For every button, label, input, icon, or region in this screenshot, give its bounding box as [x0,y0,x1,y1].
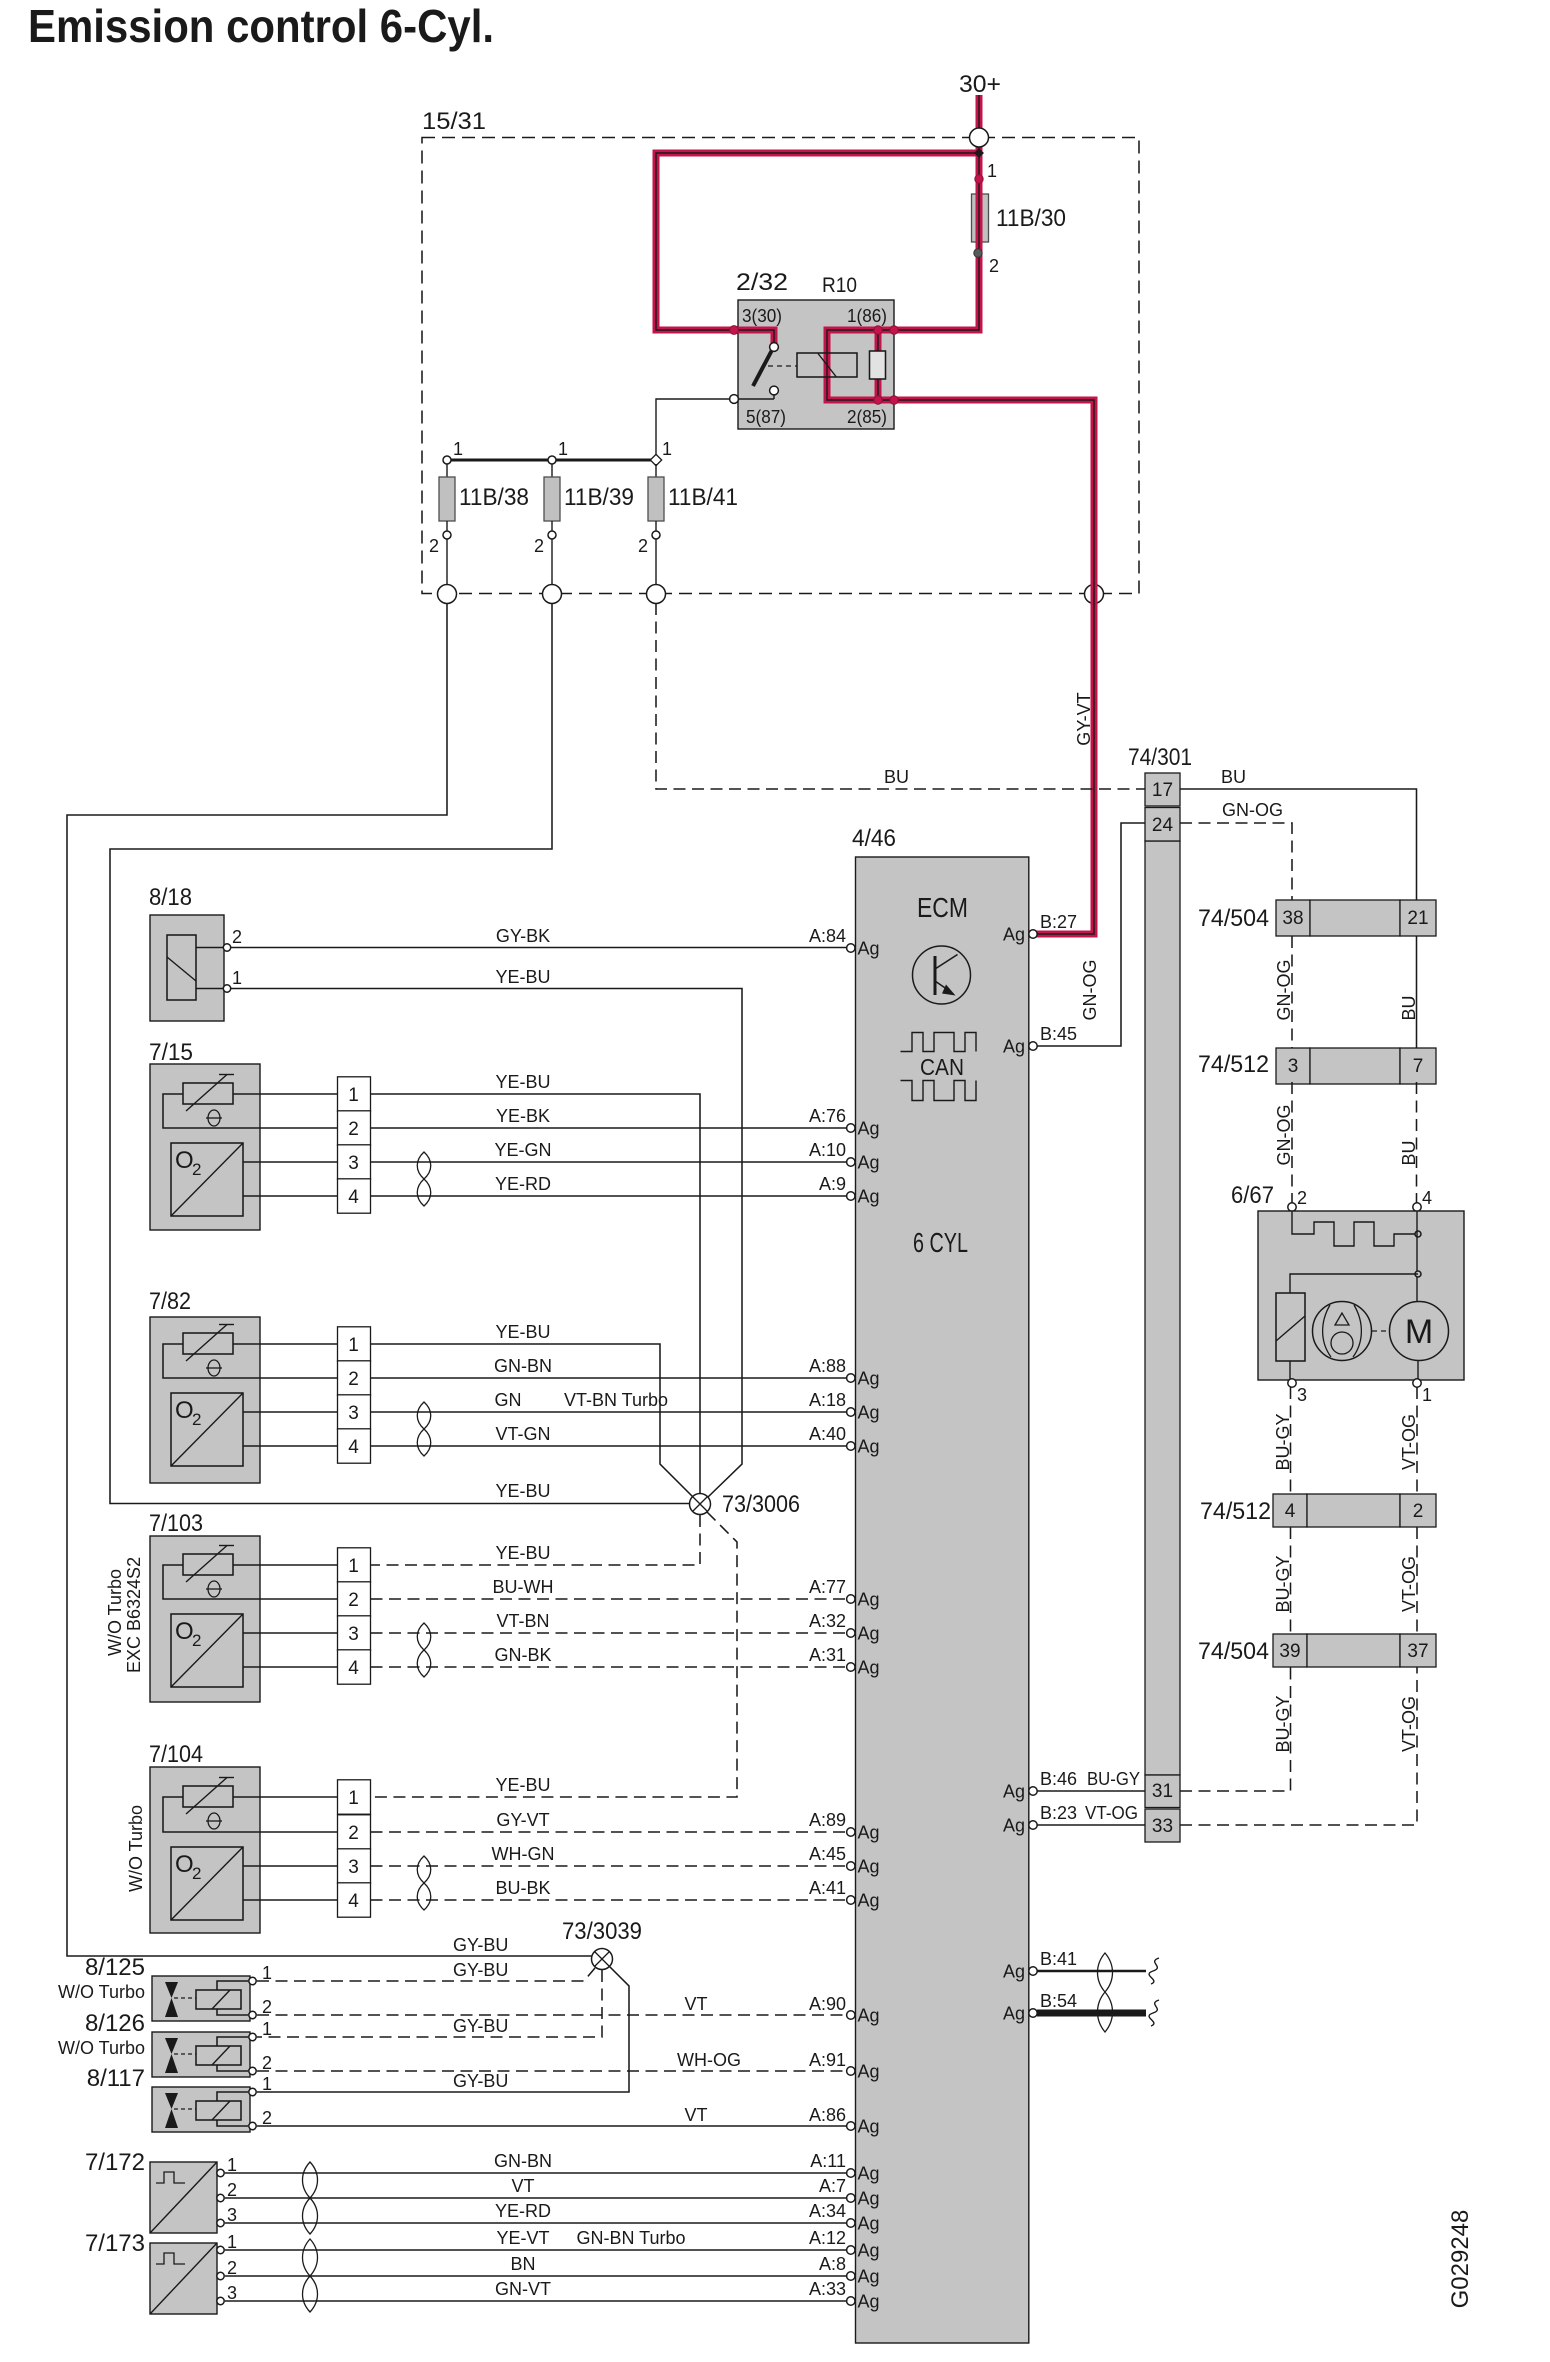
fuse 11B/38 pin 1 node [443,456,451,464]
7/15 connector cells 1-4 [338,1077,371,1111]
svg-text:74/504: 74/504 [1198,1638,1269,1665]
svg-text:Ag: Ag [1003,2004,1025,2024]
svg-text:GN-OG: GN-OG [1080,960,1100,1021]
svg-text:A:77: A:77 [809,1577,846,1597]
wire YE-VT / GN-BN Turbo 7/173 pin1 to A:12 [225,2249,851,2251]
svg-text:73/3039: 73/3039 [562,1918,642,1945]
svg-text:1: 1 [227,2232,237,2252]
wire YE-BU dashed from splice 73/3006 to 7/104 pin1 [371,1512,738,1797]
ECM pin A:32 with Ag [847,1629,855,1637]
wire VT 7/172 pin2 to A:7 [225,2197,851,2199]
wire VT-OG dashed 6/67 pin1 to 74/512 pin2 [1416,1387,1418,1494]
relay pin 5(87) open circle [730,395,739,404]
svg-text:3: 3 [227,2283,237,2303]
svg-text:YE-BU: YE-BU [495,1322,550,1342]
svg-text:GY-VT: GY-VT [496,1810,549,1830]
svg-text:VT-BN: VT-BN [496,1611,549,1631]
svg-text:GY-BU: GY-BU [453,2071,508,2091]
7/82 lead to cell 4 [260,1445,338,1447]
svg-text:YE-BU: YE-BU [495,1543,550,1563]
7/172 pulse symbol [156,2172,185,2183]
svg-text:A:84: A:84 [809,926,846,946]
wire GN-OG dashed 74/504 pin38 to 74/512 pin3 [1291,936,1293,1048]
svg-text:BU-BK: BU-BK [495,1878,550,1898]
svg-text:O: O [175,1618,194,1645]
wire YE-BU from 7/82 pin1 to splice 73/3006 [371,1344,694,1497]
svg-text:GN-BN: GN-BN [494,1356,552,1376]
wire BU-BK 7/104 pin4 to A:41 dashed [371,1899,852,1901]
svg-text:Ag: Ag [1003,1037,1025,1057]
svg-text:GN-OG: GN-OG [1222,800,1283,820]
svg-text:Ag: Ag [858,1369,880,1389]
7/104 lead to cell 3 [260,1865,338,1867]
twisted pair marker B:41/B:54 [1098,1953,1113,2032]
svg-text:1(86): 1(86) [847,306,887,326]
svg-text:1: 1 [987,161,997,181]
svg-text:Ag: Ag [858,1437,880,1457]
svg-text:74/512: 74/512 [1198,1051,1269,1078]
ECM pin A:40 with Ag [847,1442,855,1450]
wire GY-BU dashed from 8/125 pin1 to splice 73/3039 [257,1968,595,1981]
connector 74/301 cell 33 [1145,1809,1180,1842]
svg-text:3: 3 [1297,1385,1307,1405]
svg-text:1: 1 [558,439,568,459]
svg-text:3: 3 [1288,1056,1299,1077]
svg-text:7/82: 7/82 [149,1288,191,1315]
svg-text:4: 4 [348,1187,359,1208]
7/104 twisted pair marker [417,1856,431,1910]
svg-text:7/104: 7/104 [149,1741,203,1768]
wire GN-OG from ECM B:45 up to 74/301 pin 24 [1037,823,1145,1046]
svg-text:2: 2 [429,536,439,556]
svg-text:3: 3 [348,1624,359,1645]
component 8/18 body [150,915,224,1021]
svg-text:7: 7 [1413,1056,1424,1077]
connector 74/301 main bar [1145,841,1180,1775]
7/103 twisted pair marker [417,1623,431,1677]
component 8/125 body [152,1976,250,2021]
svg-text:3: 3 [348,1153,359,1174]
connector circle 30+ on box border [970,128,989,147]
component 7/103 body [150,1536,260,1702]
6/67 branch to solenoid [1290,1274,1418,1293]
svg-text:A:90: A:90 [809,1994,846,2014]
7/82 twisted pair marker [417,1402,431,1456]
ECM pin A:90 with Ag [847,2011,855,2019]
svg-text:YE-BU: YE-BU [495,1072,550,1092]
svg-text:Ag: Ag [858,1119,880,1139]
svg-text:8/117: 8/117 [87,2065,145,2092]
svg-text:A:10: A:10 [809,1140,846,1160]
svg-text:8/126: 8/126 [85,2010,145,2037]
svg-text:Ag: Ag [858,1658,880,1678]
svg-text:24: 24 [1152,815,1174,836]
wire GY-VT 7/104 pin2 to A:89 dashed [371,1831,852,1833]
svg-text:2: 2 [348,1590,359,1611]
svg-text:2: 2 [192,1631,201,1650]
svg-text:7/172: 7/172 [85,2149,145,2176]
8/18 pin 1 [223,985,230,992]
6/67 pin 3 [1288,1379,1296,1387]
7/15 lead to cell 3 [260,1161,338,1163]
svg-text:B:27: B:27 [1040,912,1077,932]
component 7/15 body [150,1064,260,1230]
svg-text:Emission control 6-Cyl.: Emission control 6-Cyl. [28,0,494,52]
ECM pin A:41 with Ag [847,1896,855,1904]
wire GN-VT 7/173 pin3 to A:33 [225,2300,851,2302]
svg-text:GN-BN: GN-BN [494,2151,552,2171]
svg-text:A:41: A:41 [809,1878,846,1898]
ECM pin B:23 with Ag [1029,1821,1037,1829]
7/173 pin 2 [217,2272,224,2279]
svg-text:2: 2 [534,536,544,556]
wire GN-BK 7/103 pin4 to A:31 dashed [371,1666,852,1668]
7/103 connector cells 1-4 [338,1548,371,1582]
7/172 pin 1 [217,2169,224,2176]
svg-text:ECM: ECM [917,892,968,923]
svg-text:1: 1 [662,439,672,459]
wire VT-OG from ECM B:23 to 74/301 pin 33 [1037,1824,1145,1826]
fuse 11B/41 pin 2 [652,531,660,539]
ECM pin B:54 with Ag [1029,2009,1037,2017]
svg-text:GN-BK: GN-BK [494,1645,551,1665]
ECM pin B:41 with Ag [1029,1967,1037,1975]
red band overlay across relay 2/32 [827,330,894,400]
7/103 lead to cell 4 [260,1666,338,1668]
7/103 lead to cell 2 [260,1598,338,1600]
svg-text:2: 2 [227,2258,237,2278]
7/15 thermistor leads [163,1094,260,1128]
component 7/172 body [150,2162,217,2233]
svg-text:2: 2 [638,536,648,556]
svg-text:BU: BU [1221,767,1246,787]
ECM pin B:46 with Ag [1029,1787,1037,1795]
7/15 lead to cell 1 [260,1093,338,1095]
7/173 pin 1 [217,2246,224,2253]
wire YE-RD 7/172 pin3 to A:34 [225,2222,851,2224]
wire YE-GN 7/15 pin3 to A:10 [371,1161,852,1163]
svg-text:BU-GY: BU-GY [1273,1413,1293,1470]
svg-text:2: 2 [192,1160,201,1179]
svg-text:O: O [175,1147,194,1174]
relay switch fixed contact 87 [770,386,779,395]
fuse 11B/41 pin 1 node [650,454,661,465]
wire VT-BN 7/103 pin3 to A:32 dashed [371,1632,852,1634]
svg-text:Ag: Ag [858,2292,880,2312]
svg-text:YE-RD: YE-RD [495,1174,551,1194]
7/103 lead to cell 1 [260,1564,338,1566]
8/117 pin 2 [249,2122,256,2129]
svg-text:BU-GY: BU-GY [1273,1695,1293,1752]
svg-text:GY-VT: GY-VT [1074,692,1094,745]
7/104 thermistor element [183,1786,233,1807]
svg-text:GN-OG: GN-OG [1274,960,1294,1021]
ECM pin A:89 with Ag [847,1828,855,1836]
8/125 injector nozzle symbol [165,1982,178,1998]
svg-text:74/301: 74/301 [1128,744,1192,771]
ECM pin A:33 with Ag [847,2297,855,2305]
fuse 11B/39 body [551,464,553,477]
svg-text:W/O Turbo: W/O Turbo [58,2038,145,2058]
8/18 pin leads [196,947,223,949]
svg-text:Ag: Ag [858,1823,880,1843]
relay coil dashed actuator link [768,365,797,367]
svg-text:B:54: B:54 [1040,1991,1077,2011]
svg-text:YE-BU: YE-BU [495,967,550,987]
svg-text:A:45: A:45 [809,1844,846,1864]
8/18 internal element [167,935,196,1000]
wire GN / VT-BN Turbo 7/82 pin3 to A:18 [371,1411,852,1413]
ECM transistor symbol [913,946,971,1004]
svg-text:7/173: 7/173 [85,2230,145,2257]
8/117 pin 1 [249,2088,256,2095]
svg-text:2: 2 [227,2180,237,2200]
ECM pin A:31 with Ag [847,1663,855,1671]
7/15 lead to cell 4 [260,1195,338,1197]
border circle below 11B/38 [438,585,457,604]
7/104 O2 element [171,1847,243,1920]
svg-text:1: 1 [262,1963,272,1983]
svg-text:6/67: 6/67 [1231,1182,1274,1209]
svg-text:2: 2 [1413,1501,1424,1522]
red band over exit circle [1091,584,1098,604]
svg-text:8/125: 8/125 [85,1954,145,1981]
border circle below 11B/39 [543,585,562,604]
7/82 connector cells 1-4 [338,1327,371,1361]
svg-text:W/O Turbo: W/O Turbo [105,1569,125,1656]
svg-text:4: 4 [348,1891,359,1912]
svg-text:33: 33 [1152,1816,1173,1837]
svg-text:1: 1 [453,439,463,459]
7/15 twisted pair marker [417,1152,431,1206]
fuse 11B/30 body [972,194,989,242]
7/82 lead to cell 1 [260,1343,338,1345]
wire 30+ supply red band: 30+ down through fuse 11B/30 to relay 1(86), coil loop, 2(85) out to GY-VT down to ECM B:27 [827,95,1094,934]
svg-text:YE-VT: YE-VT [496,2228,549,2248]
svg-text:1: 1 [348,1556,359,1577]
6/67 solenoid element [1276,1293,1305,1361]
wire BU-GY dashed from 74/301 pin31 up to 74/504 pin39 [1180,1667,1291,1791]
svg-text:1: 1 [1422,1385,1432,1405]
svg-text:W/O Turbo: W/O Turbo [126,1805,146,1892]
svg-text:BU-WH: BU-WH [493,1577,554,1597]
wire VT 8/125 pin2 to A:90 dashed [257,2014,851,2016]
svg-text:Ag: Ag [858,2164,880,2184]
wire BU solid from 74/301 pin17 to 74/504 pin21 [1180,789,1417,900]
svg-text:YE-BU: YE-BU [495,1775,550,1795]
wire stub B:54 thick with break [1037,2010,1146,2017]
7/172 twisted pair marker [303,2162,318,2234]
component 7/82 body [150,1317,260,1483]
relay coil [797,353,857,377]
8/126 solenoid [196,2046,241,2065]
wire VT-GN 7/82 pin4 to A:40 [371,1445,852,1447]
ECM pin A:8 with Ag [847,2272,855,2280]
svg-text:Ag: Ag [858,2062,880,2082]
black core of supply branch to 3(30) [656,153,982,344]
svg-text:74/512: 74/512 [1200,1498,1271,1525]
7/15 lead to cell 2 [260,1127,338,1129]
7/103 theta symbol [208,1581,220,1597]
svg-text:Ag: Ag [858,1403,880,1423]
svg-text:Ag: Ag [858,2241,880,2261]
svg-text:G029248: G029248 [1447,2210,1474,2309]
wire BU dashed 74/512 pin7 to 6/67 pin4 [1416,1082,1418,1203]
svg-text:38: 38 [1282,908,1303,929]
svg-text:VT-GN: VT-GN [495,1424,550,1444]
wire VT 8/117 pin2 to A:86 [257,2125,851,2127]
wire GY-BU dashed from splice to 8/126 pin1 [257,1970,602,2037]
svg-text:A:8: A:8 [819,2254,846,2274]
svg-text:1: 1 [232,968,242,988]
svg-text:A:89: A:89 [809,1810,846,1830]
7/82 lead to cell 3 [260,1411,338,1413]
7/103 O2 element [171,1614,243,1687]
svg-text:Ag: Ag [858,2006,880,2026]
svg-text:Ag: Ag [1003,1962,1025,1982]
8/125 pin leads [217,1981,248,1990]
6/67 node circle right [1415,1231,1421,1237]
7/15 O2 leads [243,1161,260,1163]
8/18 pin 2 [223,944,230,951]
splice 73/3039 [592,1949,613,1970]
svg-text:2: 2 [348,1119,359,1140]
splice 73/3006 [690,1494,711,1515]
svg-text:GN-OG: GN-OG [1274,1105,1294,1166]
svg-text:2: 2 [192,1410,201,1429]
svg-text:2: 2 [262,2053,272,2073]
svg-text:37: 37 [1407,1641,1428,1662]
7/103 O2 leads [243,1632,260,1634]
svg-text:Ag: Ag [858,1590,880,1610]
8/126 pin leads [217,2037,248,2046]
svg-text:A:76: A:76 [809,1106,846,1126]
fuse 11B/38 pin 2 [443,531,451,539]
ECM pin A:45 with Ag [847,1862,855,1870]
svg-text:11B/41: 11B/41 [668,484,738,511]
8/125 pin 1 [249,1977,256,1984]
svg-text:2: 2 [989,256,999,276]
ECM pin B:45 with Ag [1029,1042,1037,1050]
svg-text:VT-BN Turbo: VT-BN Turbo [564,1390,668,1410]
7/173 pin 3 [217,2297,224,2304]
svg-text:VT-OG: VT-OG [1399,1414,1419,1470]
svg-text:1: 1 [227,2155,237,2175]
black core resistor branch [877,330,879,400]
7/82 theta symbol [208,1360,220,1376]
svg-text:Ag: Ag [858,939,880,959]
connector 74/301 cell 17 [1145,773,1180,806]
fuse 11B/41 body [655,464,657,477]
svg-text:GN: GN [495,1390,522,1410]
svg-text:A:18: A:18 [809,1390,846,1410]
svg-text:4: 4 [1285,1501,1296,1522]
svg-text:73/3006: 73/3006 [722,1491,800,1518]
wire BU-GY dashed 6/67 pin3 to 74/512 pin4 [1290,1387,1292,1494]
8/125 solenoid [196,1990,241,2009]
svg-text:R10: R10 [822,274,857,297]
wire YE-RD 7/15 pin4 to A:9 [371,1195,852,1197]
svg-text:74/504: 74/504 [1198,905,1269,932]
6/67 pump symbol [1313,1302,1372,1361]
ECM pin A:86 with Ag [847,2122,855,2130]
svg-text:2: 2 [232,927,242,947]
svg-text:A:11: A:11 [810,2151,846,2171]
6/67 internal square wave from pin 2 [1292,1211,1418,1246]
svg-text:3: 3 [348,1857,359,1878]
svg-text:1: 1 [262,2074,272,2094]
7/104 thermistor leads [163,1797,260,1832]
svg-text:Ag: Ag [858,1857,880,1877]
svg-text:GY-BU: GY-BU [453,2016,508,2036]
6/67 pump-motor dashed link [1372,1330,1389,1332]
7/82 O2 element [171,1393,243,1466]
relay box 15/31 dashed enclosure [422,138,1139,594]
svg-text:EXC B6324S2: EXC B6324S2 [124,1557,144,1673]
svg-text:21: 21 [1407,908,1428,929]
6/67 motor symbol M [1390,1302,1449,1361]
svg-text:30+: 30+ [959,71,1001,98]
wire BU-WH 7/103 pin2 to A:77 dashed [371,1598,852,1600]
ECM pin A:77 with Ag [847,1595,855,1603]
svg-text:A:40: A:40 [809,1424,846,1444]
svg-text:Ag: Ag [858,1153,880,1173]
junction dot at 30+ branch [974,148,984,158]
6/67 internal feed line pin4 [1416,1211,1418,1302]
7/104 lead to cell 2 [260,1831,338,1833]
6/67 pin 4 [1413,1203,1421,1211]
component 7/104 body [150,1767,260,1933]
svg-text:O: O [175,1397,194,1424]
svg-text:1: 1 [348,1085,359,1106]
svg-text:3: 3 [227,2205,237,2225]
wire red band resistor branch in relay [875,330,882,400]
svg-text:CAN: CAN [920,1054,964,1080]
connector 74/301 cell 31 [1145,1775,1180,1808]
svg-text:A:31: A:31 [809,1645,846,1665]
wire stub B:41 with break [1037,1970,1146,1972]
7/172 pin 2 [217,2194,224,2201]
component 7/173 body [150,2243,217,2314]
svg-text:Ag: Ag [1003,925,1025,945]
7/15 O2 element [171,1143,243,1216]
wire WH-GN 7/104 pin3 to A:45 dashed [371,1865,852,1867]
bus wire linking fuse pins 1 [447,459,656,462]
svg-text:BU-GY: BU-GY [1087,1769,1140,1789]
svg-text:BU: BU [884,767,909,787]
ECM pin A:84 with Ag [847,944,855,952]
black core through fuse 11B/30 [978,192,980,244]
svg-text:31: 31 [1152,1781,1173,1802]
svg-text:VT-OG: VT-OG [1399,1556,1419,1612]
svg-text:VT-OG: VT-OG [1399,1696,1419,1752]
7/173 pulse symbol [156,2253,185,2264]
svg-text:Ag: Ag [858,1891,880,1911]
6/67 pin 2 [1288,1203,1296,1211]
svg-text:Ag: Ag [858,2189,880,2209]
svg-text:VT: VT [511,2176,534,2196]
red band through fuse 11B/30 [976,192,983,244]
8/126 pin 2 [249,2067,256,2074]
svg-text:39: 39 [1279,1641,1300,1662]
wire GN-BN 7/82 pin2 to A:88 [371,1377,852,1379]
8/126 pin 1 [249,2033,256,2040]
svg-text:GY-BU: GY-BU [453,1935,508,1955]
relay resistor [870,351,886,379]
component 8/126 body [152,2032,250,2077]
svg-text:6 CYL: 6 CYL [913,1227,968,1258]
svg-text:3(30): 3(30) [742,306,782,326]
